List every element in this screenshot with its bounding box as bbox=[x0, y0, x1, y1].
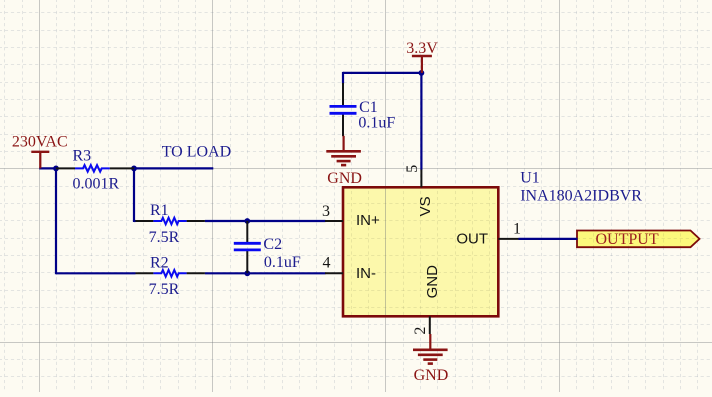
svg-text:1: 1 bbox=[513, 220, 521, 237]
svg-text:GND: GND bbox=[327, 170, 362, 187]
svg-text:TO LOAD: TO LOAD bbox=[162, 143, 231, 160]
svg-text:GND: GND bbox=[414, 367, 449, 384]
svg-text:C2: C2 bbox=[263, 236, 282, 253]
svg-text:GND: GND bbox=[424, 265, 441, 299]
svg-text:R2: R2 bbox=[150, 255, 169, 272]
svg-text:OUT: OUT bbox=[456, 231, 488, 248]
svg-text:230VAC: 230VAC bbox=[12, 134, 68, 151]
svg-text:VS: VS bbox=[417, 196, 434, 216]
svg-text:7.5R: 7.5R bbox=[149, 229, 180, 246]
svg-text:R1: R1 bbox=[150, 202, 169, 219]
svg-text:5: 5 bbox=[404, 165, 421, 173]
svg-text:2: 2 bbox=[412, 327, 429, 335]
svg-text:IN+: IN+ bbox=[356, 212, 380, 229]
svg-text:C1: C1 bbox=[359, 99, 378, 116]
svg-text:0.1uF: 0.1uF bbox=[264, 254, 301, 271]
svg-text:0.001R: 0.001R bbox=[73, 176, 120, 193]
svg-text:3.3V: 3.3V bbox=[406, 40, 438, 57]
svg-text:R3: R3 bbox=[73, 147, 92, 164]
svg-text:4: 4 bbox=[323, 255, 331, 272]
svg-text:3: 3 bbox=[322, 203, 330, 220]
svg-text:INA180A2IDBVR: INA180A2IDBVR bbox=[520, 188, 642, 205]
svg-text:0.1uF: 0.1uF bbox=[358, 115, 395, 132]
svg-text:OUTPUT: OUTPUT bbox=[596, 231, 659, 248]
svg-text:U1: U1 bbox=[520, 170, 540, 187]
svg-text:IN-: IN- bbox=[356, 265, 376, 282]
svg-text:7.5R: 7.5R bbox=[149, 281, 180, 298]
